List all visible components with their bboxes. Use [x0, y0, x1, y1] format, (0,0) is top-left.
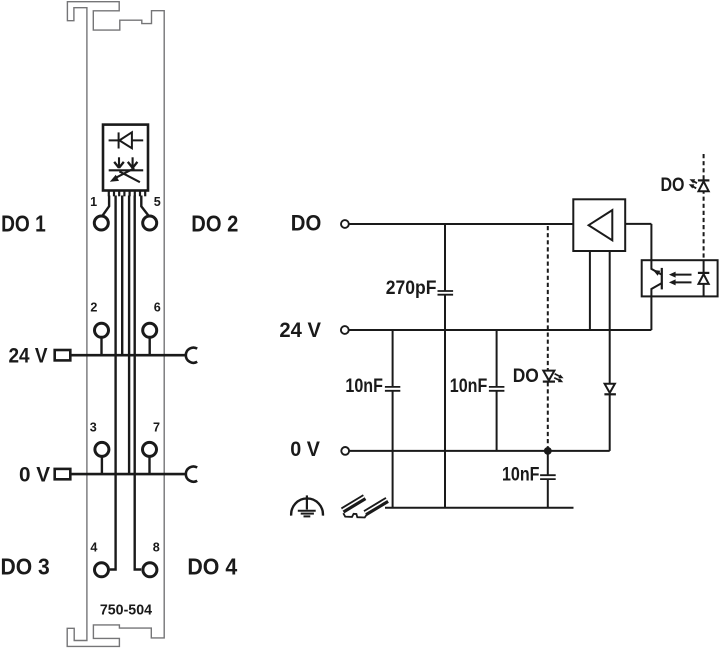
svg-text:3: 3: [90, 421, 97, 435]
external LED triangle: [699, 181, 709, 191]
module housing outline 750-504: [67, 2, 164, 647]
svg-text:24 V: 24 V: [9, 343, 48, 368]
svg-text:DO: DO: [513, 366, 539, 387]
dashed external LED link: [703, 154, 705, 260]
junction dot 0V / 10nF: [544, 447, 552, 455]
capacitor 270pF plates: [438, 291, 454, 295]
wire to 24V rail: [121, 196, 123, 356]
0V net wire: [349, 450, 609, 452]
status LED DO cathode bar: [543, 381, 555, 383]
external LED emission arrows: [689, 179, 697, 188]
24V terminal circle: [341, 326, 349, 334]
wire to terminal 8: [135, 196, 142, 570]
svg-text:0 V: 0 V: [290, 436, 320, 461]
svg-text:DO: DO: [291, 211, 322, 236]
terminal clamp 4: [95, 563, 109, 577]
24V power jumper contact: [186, 348, 197, 363]
terminal clamp 5: [143, 216, 157, 230]
wire to terminal 1: [103, 196, 110, 216]
amplifier output wire: [625, 223, 651, 225]
wire to 0V rail: [128, 196, 130, 475]
freewheel diode triangle: [605, 384, 615, 393]
wire to terminal 4: [110, 196, 116, 570]
svg-text:DO 3: DO 3: [1, 554, 50, 580]
optocoupler LED triangle: [699, 274, 709, 284]
stem terminal 6 to 24V rail: [148, 338, 150, 356]
svg-text:DO 1: DO 1: [1, 211, 46, 237]
terminal clamp 7: [143, 442, 157, 456]
status LED DO triangle: [543, 371, 554, 381]
capacitor 10nF left plates: [385, 387, 400, 391]
terminal clamp 2: [95, 323, 109, 337]
terminal clamp 3: [95, 442, 109, 456]
svg-text:10nF: 10nF: [345, 376, 383, 397]
DIN rail icon: [342, 497, 387, 518]
svg-text:10nF: 10nF: [450, 376, 488, 397]
pin stubs under LED box: [109, 191, 145, 197]
svg-text:7: 7: [153, 421, 160, 435]
dashed status LED link: [547, 226, 549, 451]
optocoupler box: [642, 260, 718, 296]
diode symbol inside LED box: [109, 132, 144, 148]
24V rail: [70, 354, 185, 357]
external LED bar: [698, 179, 710, 181]
svg-text:1: 1: [90, 195, 97, 209]
stem terminal 3 to 0V rail: [101, 457, 103, 474]
optocoupler transistor base bar: [661, 268, 663, 290]
capacitor 10nF middle wire top: [496, 330, 498, 387]
svg-text:8: 8: [153, 541, 160, 555]
svg-text:DO 4: DO 4: [187, 554, 237, 580]
LED arrows symbol inside LED box: [109, 157, 144, 182]
capacitor 10nF bottom wire bottom: [547, 479, 549, 508]
optocoupler light arrows: [669, 272, 692, 286]
svg-text:2: 2: [90, 301, 97, 315]
stem terminal 7 to 0V rail: [148, 457, 150, 474]
freewheel diode bar: [604, 393, 616, 395]
svg-text:5: 5: [154, 195, 161, 209]
DO net wire: [349, 223, 573, 225]
capacitor 270pF wire bottom: [444, 295, 446, 508]
optocoupler transistor emitter wire to 24V: [651, 283, 661, 330]
24V field connector square: [55, 350, 71, 360]
amplifier left pin to 24V: [589, 251, 591, 330]
optocoupler LED wire bottom: [703, 284, 705, 297]
optocoupler transistor collector wire: [651, 224, 661, 275]
amplifier driver box: [573, 199, 625, 251]
capacitor 10nF middle plates: [489, 387, 505, 391]
functional earth bus: [385, 507, 574, 509]
capacitor 10nF bottom plates: [540, 475, 556, 479]
svg-text:10nF: 10nF: [502, 465, 540, 486]
0V terminal circle: [341, 447, 349, 455]
capacitor 10nF left wire top: [392, 330, 394, 387]
0V rail: [70, 473, 185, 476]
svg-text:DO 2: DO 2: [191, 211, 238, 237]
capacitor 10nF middle wire bottom: [496, 391, 498, 451]
capacitor 10nF bottom wire top: [547, 451, 549, 475]
svg-text:0 V: 0 V: [19, 461, 50, 486]
freewheel diode wire to 0V: [609, 394, 611, 451]
LED indicator box: [103, 125, 148, 191]
0V field connector square: [55, 469, 71, 479]
svg-text:6: 6: [154, 301, 161, 315]
DO terminal circle: [341, 220, 349, 228]
0V power jumper contact: [186, 467, 197, 482]
terminal clamp 6: [143, 323, 157, 337]
stem terminal 2 to 24V rail: [100, 338, 102, 356]
wire to terminal 5: [141, 196, 148, 216]
amplifier right pin through 24V to diode: [609, 251, 611, 384]
svg-text:270pF: 270pF: [386, 278, 437, 299]
capacitor 10nF left wire bottom: [392, 391, 394, 508]
terminal clamp 1: [94, 216, 108, 230]
optocoupler LED anode wire: [703, 260, 705, 273]
terminal clamp 8: [143, 563, 157, 577]
svg-text:24 V: 24 V: [279, 317, 321, 342]
optocoupler LED bar: [698, 272, 709, 274]
svg-text:4: 4: [90, 541, 97, 555]
optocoupler transistor arrow: [653, 270, 661, 276]
functional earth symbol: [291, 495, 323, 516]
svg-text:DO: DO: [661, 175, 685, 196]
amplifier triangle: [589, 210, 613, 240]
status LED DO emission arrows: [554, 374, 563, 382]
capacitor 270pF wire top: [444, 224, 446, 291]
svg-text:750-504: 750-504: [100, 602, 152, 618]
24V net wire: [349, 329, 652, 331]
